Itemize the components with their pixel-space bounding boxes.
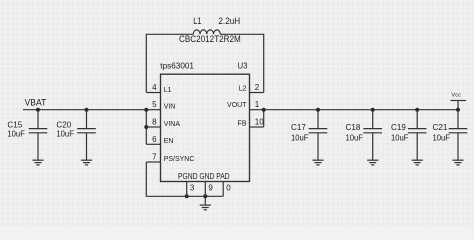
svg-text:10uF: 10uF <box>56 129 74 139</box>
svg-text:VBAT: VBAT <box>25 98 47 108</box>
svg-text:PS/SYNC: PS/SYNC <box>164 156 195 163</box>
svg-text:L2: L2 <box>239 86 247 93</box>
svg-text:9: 9 <box>208 183 213 192</box>
svg-text:10: 10 <box>255 118 264 127</box>
svg-text:FB: FB <box>238 121 247 128</box>
svg-text:10uF: 10uF <box>391 133 409 143</box>
svg-text:EN: EN <box>164 138 174 145</box>
svg-text:Vcc: Vcc <box>451 93 461 99</box>
svg-text:VINA: VINA <box>164 121 181 128</box>
svg-text:L1: L1 <box>193 16 201 26</box>
svg-text:8: 8 <box>152 118 157 127</box>
svg-text:CBC2012T2R2M: CBC2012T2R2M <box>179 34 241 44</box>
svg-text:tps63001: tps63001 <box>160 61 194 71</box>
svg-text:1: 1 <box>255 100 260 109</box>
svg-text:C19: C19 <box>391 122 406 132</box>
svg-text:C18: C18 <box>346 122 361 132</box>
svg-text:5: 5 <box>152 100 157 109</box>
svg-text:10uF: 10uF <box>291 133 309 143</box>
svg-text:C17: C17 <box>291 122 306 132</box>
svg-text:VOUT: VOUT <box>227 102 247 109</box>
svg-text:VIN: VIN <box>164 104 176 111</box>
svg-text:4: 4 <box>152 83 157 92</box>
svg-text:7: 7 <box>152 153 157 162</box>
svg-text:2: 2 <box>255 83 260 92</box>
svg-text:2.2uH: 2.2uH <box>218 16 240 26</box>
svg-text:U3: U3 <box>238 61 248 71</box>
svg-text:6: 6 <box>152 135 157 144</box>
svg-text:L1: L1 <box>164 87 172 94</box>
svg-text:3: 3 <box>190 183 195 192</box>
svg-text:10uF: 10uF <box>433 133 451 143</box>
svg-text:10uF: 10uF <box>346 133 364 143</box>
svg-text:PGND GND PAD: PGND GND PAD <box>178 172 230 181</box>
svg-text:C21: C21 <box>433 122 448 132</box>
svg-text:10uF: 10uF <box>7 129 25 139</box>
svg-text:0: 0 <box>226 183 231 192</box>
